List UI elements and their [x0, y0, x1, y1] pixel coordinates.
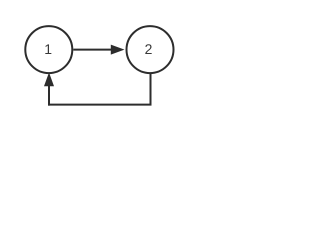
node 2 (circle) — [127, 26, 174, 73]
node 2 label "2" — [145, 44, 151, 54]
node 1 (circle) — [25, 26, 72, 73]
wire: node 1 right to node 2 left — [73, 49, 112, 51]
wire: bottom horizontal — [48, 104, 152, 106]
wire: node 2 bottom down — [150, 74, 152, 105]
arrowhead into node 2 — [111, 45, 123, 54]
wire: left vertical up to node 1 — [48, 85, 50, 106]
node 1 label "1" — [45, 44, 51, 54]
arrowhead into node 1 bottom — [45, 74, 54, 86]
